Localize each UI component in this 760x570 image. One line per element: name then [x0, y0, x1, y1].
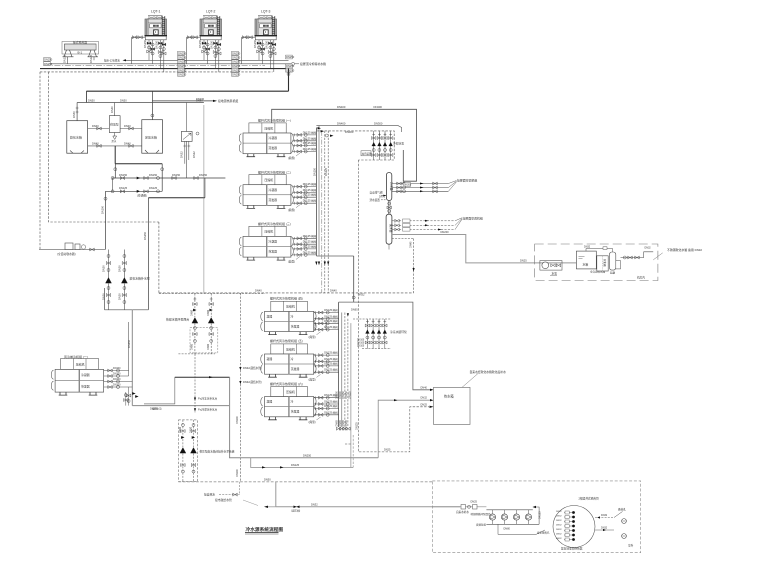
svg-text:DN32: DN32	[556, 538, 562, 540]
svg-text:DN100: DN100	[357, 343, 365, 345]
left end label	[268, 506, 276, 508]
lower trunk vertical 5 dashed	[350, 323, 352, 467]
svg-text:(典型): (典型)	[288, 208, 295, 212]
machine room return line	[229, 457, 378, 459]
pressure reducing valve	[294, 506, 300, 509]
tank link pipe lower	[88, 145, 142, 147]
svg-text:DN150: DN150	[312, 167, 316, 176]
return riser to hot tank	[378, 400, 430, 458]
svg-text:DN150: DN150	[539, 511, 542, 519]
svg-text:DN65: DN65	[345, 419, 348, 426]
header interconnect	[389, 201, 391, 215]
svg-text:冷却水泵: 冷却水泵	[393, 142, 404, 146]
branch lines to wells	[595, 517, 614, 519]
return header (ji shui qi)	[386, 214, 392, 244]
svg-text:DN40: DN40	[255, 289, 262, 293]
heat pump unit A3	[239, 221, 316, 264]
labels beside pumps	[191, 309, 210, 350]
outdoor supply main	[276, 482, 460, 507]
cooling pump column 4	[389, 131, 393, 160]
single-cool unit top tier	[61, 359, 99, 370]
svg-text:热水箱: 热水箱	[444, 394, 454, 399]
drop from link to pump frame	[147, 198, 149, 310]
riser to well circle	[536, 507, 539, 524]
svg-text:LQT-3: LQT-3	[261, 10, 271, 14]
condenser water bus 5 dashed	[40, 71, 273, 73]
trunk vertical solid 2	[318, 126, 320, 257]
svg-text:(典型): (典型)	[309, 377, 316, 381]
svg-text:室外: 室外	[628, 544, 634, 548]
svg-text:DN40: DN40	[92, 124, 99, 128]
hot supply solid line to tank	[339, 302, 430, 390]
bypass row 1	[112, 177, 225, 179]
cooling pump column 2	[377, 131, 381, 160]
well symbol lower	[622, 534, 627, 539]
return dashed line	[317, 131, 394, 160]
svg-text:DN125: DN125	[291, 463, 300, 467]
return header outlet gray line	[392, 235, 576, 263]
svg-text:DN100: DN100	[357, 340, 365, 342]
riser to ground-source line	[151, 91, 153, 120]
CT-2 feed riser	[186, 37, 188, 64]
secondary pump 2	[371, 319, 375, 349]
svg-text:DN100: DN100	[357, 346, 365, 348]
svg-text:DN80: DN80	[207, 309, 210, 316]
svg-text:DN400: DN400	[374, 105, 383, 109]
plate heat exchanger B-1	[62, 42, 99, 55]
equipment room dashed boundary	[535, 244, 658, 281]
svg-text:接屋面空调机组: 接屋面空调机组	[457, 178, 477, 183]
svg-text:接市政给水管: 接市政给水管	[215, 498, 232, 502]
svg-text:DN70: DN70	[379, 196, 386, 199]
drop at left of return main	[85, 91, 87, 102]
svg-text:DN32: DN32	[180, 151, 184, 158]
secondary pump group headers	[353, 318, 391, 320]
svg-text:螺杆式风冷热泵机组 (六): 螺杆式风冷热泵机组 (六)	[270, 381, 303, 386]
svg-text:(典型): (典型)	[288, 260, 295, 264]
svg-text:自来水经软化水箱软化后补水: 自来水经软化水箱软化后补水	[470, 370, 507, 374]
svg-text:DN32: DN32	[556, 529, 562, 531]
left dashed frame inner	[49, 72, 159, 222]
supply pipes to AHU	[392, 184, 449, 192]
svg-text:DN125: DN125	[149, 186, 158, 190]
pump bottom dashed header	[178, 353, 215, 355]
trunk vertical supply solid 1	[315, 128, 317, 257]
dashed riser down from header area	[413, 239, 415, 293]
svg-text:泄水: 泄水	[112, 139, 117, 143]
header bottom drain	[388, 244, 390, 249]
svg-text:DN80: DN80	[504, 527, 511, 530]
dosing device label	[361, 151, 371, 156]
svg-text:DN80: DN80	[191, 309, 194, 316]
CT-3 feed riser	[241, 37, 243, 64]
secondary pump 4	[383, 319, 387, 349]
CT-1 valve cluster	[143, 39, 166, 72]
circulation pump 2	[208, 294, 214, 354]
svg-text:DN150: DN150	[149, 173, 158, 177]
svg-text:DN40: DN40	[124, 124, 131, 128]
svg-text:DN32: DN32	[556, 533, 562, 535]
bus2 right valve and label	[292, 62, 295, 65]
svg-text:DN50: DN50	[118, 265, 122, 272]
svg-text:螺杆式风冷热泵机组 (四): 螺杆式风冷热泵机组 (四)	[270, 296, 303, 301]
makeup header line	[77, 102, 204, 104]
makeup inlet labels left of header	[381, 195, 386, 197]
bus label stack right	[286, 55, 295, 72]
svg-text:DN100: DN100	[113, 378, 121, 381]
chiller zone frame line	[203, 105, 205, 294]
trunk to lower corner	[316, 255, 353, 257]
svg-text:(典型): (典型)	[309, 335, 316, 339]
condenser water bus 2	[48, 63, 291, 65]
well symbol upper	[614, 512, 623, 518]
secondary return line	[251, 458, 354, 468]
svg-text:DN40: DN40	[409, 241, 412, 248]
left drop	[114, 164, 116, 178]
lower trunk vertical 1	[338, 302, 340, 427]
condenser return main horizontal	[86, 90, 288, 92]
svg-text:DN25: DN25	[471, 501, 478, 504]
single-cool outlet stacks	[126, 387, 129, 406]
svg-text:DN250: DN250	[303, 454, 312, 458]
cooling tower CT-2	[200, 16, 223, 40]
expansion tank riser	[76, 103, 78, 121]
svg-text:加药装置: 加药装置	[362, 151, 372, 155]
ground source branch line	[152, 100, 213, 102]
svg-text:热媒水循环泵两台: 热媒水循环泵两台	[166, 317, 189, 322]
dashed makeup from header	[392, 238, 414, 240]
B-1 right riser	[93, 57, 95, 61]
svg-text:DN200: DN200	[441, 230, 450, 234]
cooling tower CT-1	[145, 16, 168, 40]
svg-text:DN50: DN50	[102, 293, 106, 300]
main return drop	[288, 69, 290, 92]
single-cool trunk risers	[128, 322, 130, 376]
svg-text:压缩机: 压缩机	[76, 361, 85, 366]
svg-text:DN32: DN32	[311, 503, 318, 507]
svg-text:DN100: DN100	[113, 367, 121, 370]
svg-text:DN50: DN50	[72, 111, 76, 118]
svg-text:DN32: DN32	[601, 527, 608, 530]
secondary supply line	[316, 126, 401, 132]
soft water supply line	[39, 249, 106, 251]
svg-text:自动排气阀: 自动排气阀	[370, 190, 383, 194]
svg-text:DN40: DN40	[92, 142, 99, 146]
heat pump unit B3	[261, 381, 339, 424]
single-cool unit body	[55, 369, 104, 392]
small box right	[616, 261, 621, 269]
svg-text:蒸发器: 蒸发器	[81, 384, 90, 389]
svg-text:DN32: DN32	[421, 397, 428, 400]
svg-text:接B-1冷却水: 接B-1冷却水	[104, 58, 120, 63]
svg-text:B-1: B-1	[78, 51, 83, 55]
svg-text:DN100: DN100	[113, 384, 121, 387]
svg-text:Pxj冷冻水补水点: Pxj冷冻水补水点	[198, 396, 218, 400]
exit label	[653, 253, 663, 260]
condensate labels on dashed riser	[239, 293, 241, 482]
svg-text:螺杆式风冷热泵机组 (三): 螺杆式风冷热泵机组 (三)	[258, 221, 291, 226]
third tank feed arrow	[430, 406, 434, 408]
pressure pump 2	[191, 420, 197, 482]
pressure tank T2	[142, 120, 163, 154]
svg-text:DN150: DN150	[119, 173, 128, 177]
inner dashed drop to pumps	[158, 222, 160, 294]
svg-text:DN125: DN125	[324, 167, 328, 176]
long dashed bottom line	[178, 481, 432, 483]
svg-text:DN50: DN50	[189, 426, 192, 433]
svg-text:螺杆式风冷热泵机组 (二): 螺杆式风冷热泵机组 (二)	[258, 169, 291, 174]
svg-text:DN150: DN150	[150, 408, 158, 411]
condenser water bus 1	[130, 59, 289, 61]
svg-text:DN80: DN80	[191, 343, 194, 350]
svg-text:板式换热器: 板式换热器	[73, 41, 87, 45]
svg-text:机房内: 机房内	[637, 276, 645, 280]
svg-text:DN125: DN125	[356, 422, 359, 430]
svg-text:DN400: DN400	[337, 121, 346, 125]
pump box P between tanks	[109, 116, 120, 133]
svg-text:变频泵组: 变频泵组	[476, 523, 487, 527]
svg-text:不锈钢软化水箱 备用 DN32: 不锈钢软化水箱 备用 DN32	[667, 247, 702, 252]
drop to soft water line	[105, 191, 107, 249]
svg-text:DN65: DN65	[351, 307, 358, 311]
svg-text:DN150: DN150	[199, 173, 208, 177]
svg-text:DN125: DN125	[348, 391, 351, 399]
single-cool unit stubs	[104, 371, 133, 388]
B-1 legs	[63, 50, 99, 57]
softener column B	[609, 252, 615, 270]
pump frame footer	[105, 288, 149, 310]
svg-text:接自来水: 接自来水	[204, 493, 215, 497]
svg-text:螺杆式风冷热泵机组 (五): 螺杆式风冷热泵机组 (五)	[270, 338, 303, 343]
svg-text:螺杆式风冷热泵机组 (一): 螺杆式风冷热泵机组 (一)	[258, 118, 291, 123]
pump suction dashed header	[159, 293, 265, 295]
svg-text:DN300: DN300	[345, 130, 354, 134]
lower trunk vertical 4 dashed	[345, 319, 352, 444]
svg-text:(旁通阀): (旁通阀)	[137, 194, 147, 198]
bus label stack B	[232, 51, 241, 76]
svg-text:自来水补水: 自来水补水	[456, 510, 469, 514]
svg-text:软化水箱: 软化水箱	[70, 135, 82, 140]
safety valve box	[181, 132, 192, 142]
svg-text:LQT-2: LQT-2	[206, 10, 216, 14]
svg-text:冷凝器: 冷凝器	[81, 372, 90, 377]
svg-text:DN50: DN50	[88, 98, 95, 102]
CT-3 feed pipe	[242, 36, 256, 39]
lower trunk vertical 3 dashed	[344, 313, 346, 428]
cooling pump column 3	[383, 131, 387, 160]
svg-text:接至换热孔: 接至换热孔	[537, 530, 550, 534]
svg-text:冷冻水循环泵: 冷冻水循环泵	[390, 330, 407, 334]
lower trunk vertical 2	[341, 313, 343, 428]
condenser supply main to header	[272, 109, 417, 181]
bus label stack A	[178, 51, 187, 76]
makeup arrows on dashed vertical	[194, 354, 196, 413]
return pipes from AHU dashed	[392, 221, 455, 230]
svg-text:DN100: DN100	[113, 373, 121, 376]
svg-text:DN50: DN50	[102, 265, 106, 272]
svg-text:定压水箱: 定压水箱	[145, 135, 157, 140]
svg-text:DN32(凝结水管): DN32(凝结水管)	[243, 380, 262, 384]
bypass row 2	[106, 190, 163, 192]
svg-text:DN50: DN50	[120, 98, 127, 102]
trunk vertical dashdot	[321, 131, 323, 293]
CT-2 valve cluster	[198, 39, 221, 72]
secondary pump 3	[377, 319, 381, 349]
top connecting line	[586, 249, 613, 253]
trunk vertical dashed 1	[324, 131, 326, 293]
water softener unit	[65, 243, 73, 250]
svg-text:DN100: DN100	[100, 205, 104, 214]
expansion tank T1	[67, 121, 88, 154]
tank T1 riser circle	[151, 114, 154, 117]
circulation pump 1	[192, 294, 198, 354]
svg-text:换热孔: 换热孔	[618, 507, 626, 511]
heat pump unit B1	[261, 296, 339, 339]
svg-text:(全自动软水器): (全自动软水器)	[57, 252, 76, 256]
svg-text:水泵: 水泵	[552, 272, 558, 276]
CT-2 feed pipe	[187, 36, 201, 39]
svg-text:DN200: DN200	[404, 185, 412, 187]
bus label stack left	[44, 58, 53, 66]
svg-text:水箱: 水箱	[583, 262, 589, 267]
drain funnel under pump box	[113, 133, 117, 140]
svg-text:稳压泵: 稳压泵	[110, 123, 119, 127]
svg-text:DN32: DN32	[601, 514, 608, 517]
junction arrows	[318, 127, 325, 132]
CT-3 valve cluster	[253, 39, 276, 72]
inlet pump set	[540, 261, 562, 271]
chilled makeup drop main	[131, 310, 133, 406]
heat pump unit A1	[239, 118, 316, 161]
svg-text:(典型): (典型)	[309, 420, 316, 424]
svg-text:DN40: DN40	[110, 106, 114, 113]
svg-text:Pxj冷却水补水点: Pxj冷却水补水点	[198, 408, 218, 412]
svg-text:DN150: DN150	[172, 173, 181, 177]
svg-text:DN400: DN400	[337, 105, 346, 109]
svg-text:DN125: DN125	[89, 54, 93, 63]
svg-text:盐罐: 盐罐	[610, 271, 616, 275]
svg-text:DN25: DN25	[520, 259, 527, 263]
svg-text:DN250: DN250	[143, 231, 147, 240]
outlet line with fittings	[621, 252, 654, 258]
B-1 left riser	[66, 57, 68, 64]
svg-text:(减压阀): (减压阀)	[291, 509, 300, 513]
svg-text:DN40: DN40	[124, 142, 131, 146]
svg-text:接地源热泵机组: 接地源热泵机组	[218, 98, 238, 103]
svg-text:地源侧循环泵四台: 地源侧循环泵四台	[471, 512, 492, 516]
soft water pump 1	[106, 278, 112, 284]
CT-1 feed riser	[131, 37, 133, 64]
chilled return link	[148, 197, 205, 199]
hot water tank	[434, 387, 471, 424]
supply header (fen shui qi)	[386, 173, 391, 201]
raw water tank	[576, 251, 596, 269]
pressure makeup dashed box	[178, 420, 197, 482]
soft water pump risers	[109, 250, 125, 278]
svg-text:DN32: DN32	[645, 247, 652, 250]
well connectors	[564, 511, 575, 541]
left dashed frame outer	[39, 72, 41, 250]
svg-text:DN32(凝结水管): DN32(凝结水管)	[243, 366, 262, 370]
svg-text:DN25: DN25	[421, 404, 428, 407]
trunk flow arrows	[315, 262, 329, 266]
condenser water bus 4 main	[40, 68, 289, 70]
trunk vertical dashed 2	[327, 131, 329, 293]
svg-text:接屋面空调机组: 接屋面空调机组	[463, 215, 483, 220]
svg-text:(典型): (典型)	[288, 156, 295, 160]
svg-text:DN50: DN50	[196, 98, 203, 102]
svg-text:DN32: DN32	[556, 524, 562, 526]
chilled loop bottom lines	[132, 405, 229, 407]
svg-text:DN125: DN125	[63, 54, 67, 63]
svg-text:DN50: DN50	[264, 478, 271, 482]
svg-text:竖直地埋管换热器: 竖直地埋管换热器	[561, 547, 583, 551]
svg-text:稳压泵由水箱间接补水至系统: 稳压泵由水箱间接补水至系统	[200, 450, 235, 454]
long dashed distribution line	[159, 292, 414, 294]
CT-1 feed pipe	[132, 36, 146, 39]
lower trunk labels	[336, 391, 359, 430]
secondary pump 1	[365, 319, 369, 349]
geothermal zone dashed boundary	[432, 481, 640, 553]
svg-text:DN32: DN32	[584, 246, 591, 249]
svg-text:DN50: DN50	[179, 426, 182, 433]
svg-text:DN300: DN300	[374, 121, 383, 125]
svg-text:DN32: DN32	[192, 151, 196, 158]
bottom return loop	[498, 524, 545, 534]
svg-text:2根竖井式换热管: 2根竖井式换热管	[579, 497, 600, 501]
svg-text:DN25: DN25	[384, 449, 391, 452]
tank link pipe upper	[88, 128, 142, 130]
fan to AHU label	[448, 181, 456, 192]
placeholder groups appended below	[132, 10, 277, 73]
pressure pump 1	[180, 420, 186, 482]
collector top pipe	[115, 163, 162, 165]
svg-text:DN80: DN80	[207, 343, 210, 350]
svg-text:软化器: 软化器	[603, 259, 607, 267]
svg-text:软化水箱补水泵: 软化水箱补水泵	[130, 276, 150, 281]
tap water makeup fittings	[432, 506, 486, 508]
svg-text:DN32: DN32	[556, 520, 562, 522]
svg-text:DN50: DN50	[118, 293, 122, 300]
condenser water bus 3 dash-dot	[44, 65, 265, 67]
lower trunk arrow	[347, 313, 349, 317]
svg-text:DN40: DN40	[421, 386, 428, 389]
cooling pump column 1	[372, 131, 376, 160]
svg-text:DN32: DN32	[556, 515, 562, 517]
pump discharge stacks	[109, 284, 125, 310]
svg-text:DN100: DN100	[236, 469, 239, 477]
link between rows	[113, 141, 187, 191]
svg-text:DN100: DN100	[236, 416, 239, 424]
svg-text:LQT-1: LQT-1	[151, 10, 161, 14]
svg-text:DN32: DN32	[556, 511, 562, 513]
softener column A	[597, 256, 608, 271]
svg-text:DN125: DN125	[119, 186, 128, 190]
second tank feed arrow	[430, 399, 434, 401]
svg-text:风冷单冷机组 (一): 风冷单冷机组 (一)	[64, 354, 88, 359]
cooling tower CT-3	[255, 16, 278, 40]
dark drop from link pipe	[114, 146, 116, 164]
svg-text:泄水装置: 泄水装置	[370, 198, 381, 202]
soft water pump 2	[121, 278, 127, 284]
heat pump unit B2	[261, 338, 339, 381]
tank leader label	[462, 374, 478, 388]
pump anti-vibration dashed enclosure	[190, 328, 218, 353]
dashed drop from pump row	[358, 160, 429, 452]
right drop	[161, 164, 163, 192]
bus1 left arrow label	[126, 59, 131, 61]
svg-text:接屋顶冷却塔补水箱: 接屋顶冷却塔补水箱	[300, 61, 326, 66]
